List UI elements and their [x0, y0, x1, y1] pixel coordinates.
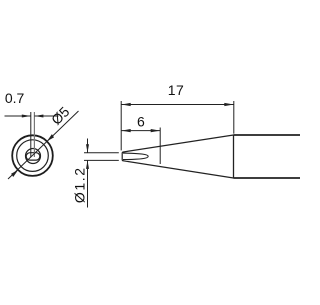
dimension 17 dimension line with arrows — [121, 103, 234, 106]
front view inner circle (cone end) — [26, 149, 41, 164]
side view tip chisel edge — [122, 152, 123, 161]
dimension Ø5 arrowhead top-right (points inward to circle) — [47, 134, 54, 141]
dimension 0.7 dimension line right segment with arrow — [34, 115, 58, 118]
dimension Ø1.2 bottom extension line — [84, 159, 119, 161]
front view blade cross-section stadium — [26, 153, 40, 160]
dimension Ø1.2 top extension line — [84, 152, 119, 154]
dimension 0.7 extension line left — [30, 112, 32, 157]
dimension Ø1.2 vertical dimension line upper segment with down arrow — [86, 139, 89, 153]
side view shank top line — [234, 134, 301, 136]
dimension Ø5 arrowhead bottom-left (points inward to circle) — [11, 170, 18, 177]
side view cone top line — [123, 135, 234, 152]
side view shank bottom line — [234, 177, 301, 179]
dimension Ø1.2 vertical dimension line lower segment with up arrow — [86, 160, 89, 207]
svg-text:0.7: 0.7 — [5, 90, 25, 106]
svg-text:Ø1.2: Ø1.2 — [72, 166, 88, 203]
dimension 0.7 dimension line left segment with arrow — [5, 115, 31, 118]
dimension 0.7 extension line right — [33, 112, 35, 157]
side view ground flat lens outline — [123, 153, 148, 160]
side view cone bottom line — [123, 161, 234, 178]
dimension 17 right extension line — [233, 101, 235, 134]
dimension 6 dimension line with arrows — [121, 129, 160, 132]
dimension 6 right extension line — [159, 128, 161, 165]
dimension Ø5 leader line — [8, 111, 79, 179]
svg-text:6: 6 — [137, 114, 145, 130]
side view shank left edge — [233, 135, 235, 178]
front view outer circle (sleeve OD Ø5) — [12, 135, 53, 176]
dimension 17/6 shared left extension line — [120, 101, 122, 150]
svg-text:17: 17 — [168, 82, 185, 98]
front view middle ring circle — [17, 140, 49, 172]
